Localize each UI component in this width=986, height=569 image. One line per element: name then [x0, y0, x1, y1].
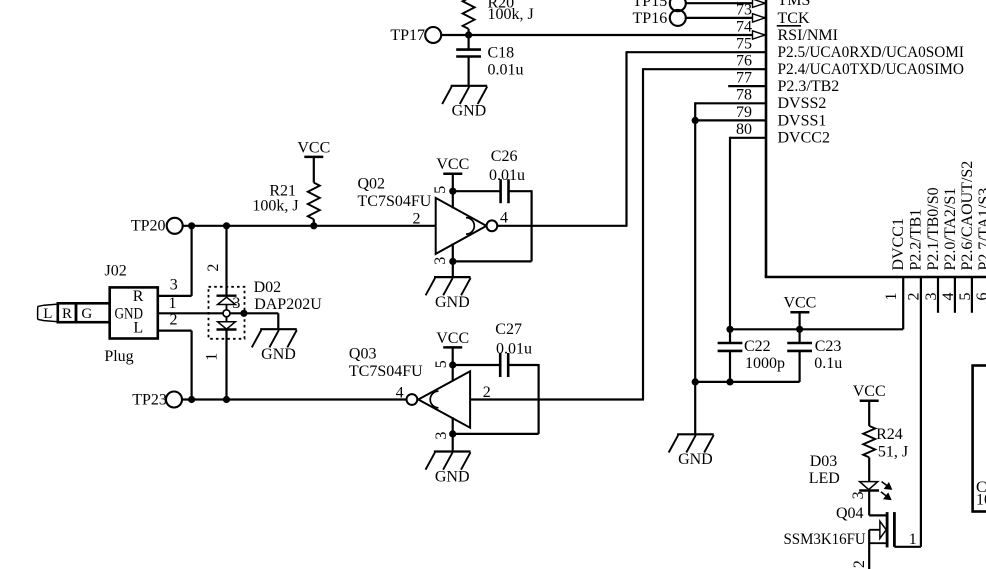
- wire pin TMS row from TP15: [686, 2, 766, 4]
- testpoint TP23: [132, 391, 182, 408]
- inverter Q02 triangle with arc: [436, 198, 487, 254]
- svg-text:3: 3: [850, 491, 867, 499]
- junction DVSS1/DVSS2 net: [692, 117, 699, 124]
- svg-text:VCC: VCC: [436, 330, 469, 347]
- capacitor C27 0.01u bypass loop: [453, 321, 539, 434]
- svg-text:0.01u: 0.01u: [489, 167, 525, 184]
- svg-text:C26: C26: [491, 148, 518, 165]
- svg-text:5: 5: [432, 186, 449, 194]
- svg-text:TCK: TCK: [778, 10, 810, 27]
- svg-text:P2.3/TB2: P2.3/TB2: [778, 78, 840, 95]
- junction TP20/J02 pin3: [188, 222, 195, 229]
- Q03 pin 5 VCC wire: [433, 347, 453, 381]
- svg-text:3: 3: [170, 277, 178, 294]
- svg-text:80: 80: [736, 121, 752, 138]
- junction TP23/J02 pin2: [188, 396, 195, 403]
- D03 pin 3 cathode wire to Q04 drain: [850, 491, 887, 516]
- D02 top diode (cathode bar up): [217, 296, 237, 310]
- svg-text:C22: C22: [744, 338, 771, 355]
- wire TP20 to Q02 input: [183, 225, 436, 227]
- connector box (clipped at right edge): [973, 366, 986, 512]
- D02 pin 2 wire (top) from TP20 net: [205, 226, 227, 296]
- ground bottom rail: [677, 433, 714, 435]
- J02 pin 2 (L) wire down to TP23 net: [158, 312, 192, 400]
- svg-text:79: 79: [736, 104, 752, 121]
- ground under C18: [451, 85, 488, 87]
- svg-text:P2.5/UCA0RXD/UCA0SOMI: P2.5/UCA0RXD/UCA0SOMI: [778, 44, 965, 61]
- transistor Q04 MOSFET symbol: [869, 512, 894, 547]
- wire VCC top rail from pin 1 DVCC1: [730, 277, 903, 329]
- svg-text:2: 2: [413, 211, 421, 228]
- svg-text:74: 74: [736, 18, 752, 35]
- svg-text:LED: LED: [809, 470, 840, 487]
- wire pin 76 to Q03 input (net TXD): [643, 68, 766, 399]
- svg-text:VCC: VCC: [436, 156, 469, 173]
- svg-text:75: 75: [736, 36, 752, 53]
- svg-text:GND: GND: [678, 451, 713, 468]
- wire pin 75 to Q02 output (net RXD): [627, 51, 767, 226]
- D02 labels: [254, 279, 323, 313]
- Q03 pin 3 GND wire: [433, 417, 453, 451]
- junction D02 pin3 to GND branch: [240, 310, 247, 317]
- svg-text:10: 10: [976, 492, 986, 509]
- wire Q03 input from P2.4 net: [470, 398, 644, 400]
- testpoint TP17: [390, 27, 441, 44]
- svg-text:P2.7/TA1/S3: P2.7/TA1/S3: [976, 188, 986, 271]
- capacitor C26 0.01u bypass loop: [453, 148, 532, 261]
- svg-text:2: 2: [205, 264, 222, 272]
- svg-text:L: L: [133, 320, 143, 337]
- pin 2 P2.2/TB1 wire to Q04 gate: [894, 277, 922, 547]
- svg-text:2: 2: [170, 312, 178, 329]
- svg-text:D03: D03: [810, 453, 838, 470]
- svg-text:100k, J: 100k, J: [252, 198, 298, 215]
- Q02 pin 5 VCC wire: [432, 174, 453, 209]
- svg-text:G: G: [81, 306, 92, 322]
- J02 pin 1 (GND) wire through D02 common node: [158, 295, 244, 313]
- svg-text:78: 78: [736, 87, 752, 104]
- testpoint TP16: [633, 10, 686, 27]
- pin 1 DVCC1 stub: [883, 293, 900, 301]
- inverter Q02 TC7S04FU designator: [358, 176, 432, 210]
- junction Q02 pin5 / C26: [449, 188, 456, 195]
- svg-text:DVSS1: DVSS1: [778, 112, 827, 129]
- pin label RSI/NMI with overline on RSI: [777, 26, 838, 44]
- junction TP23/D02 pin1: [223, 396, 230, 403]
- connector J02 Plug body: [110, 287, 158, 338]
- svg-text:VCC: VCC: [297, 139, 330, 156]
- svg-text:DAP202U: DAP202U: [254, 296, 322, 313]
- svg-text:GND: GND: [452, 103, 487, 120]
- inverter Q03 triangle with arc (points left): [418, 371, 470, 427]
- svg-text:1: 1: [203, 353, 220, 361]
- svg-text:P2.4/UCA0TXD/UCA0SIMO: P2.4/UCA0TXD/UCA0SIMO: [778, 61, 965, 78]
- svg-text:0.01u: 0.01u: [488, 61, 524, 78]
- testpoint TP15: [633, 0, 686, 11]
- pin 3 stub: [923, 277, 940, 313]
- svg-text:RSI/NMI: RSI/NMI: [778, 27, 838, 44]
- D02 pin 1 wire (bottom) to TP23 net: [203, 330, 226, 400]
- svg-text:P2.2/TB1: P2.2/TB1: [908, 209, 925, 271]
- junction rail / VCC / C23: [796, 326, 803, 333]
- capacitor C22 1000p: [718, 329, 785, 382]
- svg-text:C18: C18: [488, 45, 515, 62]
- svg-text:5: 5: [433, 360, 450, 368]
- resistor R20 100k (clipped at top): [463, 0, 534, 35]
- jack plug tip symbol with L R G sections: [38, 303, 110, 322]
- Q02 pin 3 GND wire: [432, 244, 453, 278]
- svg-text:D02: D02: [254, 279, 282, 296]
- inverter Q03 TC7S04FU designator: [349, 346, 423, 381]
- svg-text:C27: C27: [495, 321, 522, 338]
- pin input arrow TMS: [753, 0, 766, 7]
- svg-text:DVSS2: DVSS2: [778, 95, 827, 112]
- wire pin 78 DVSS2 to ground rail: [695, 102, 766, 434]
- svg-text:0.1u: 0.1u: [814, 355, 842, 372]
- svg-text:1000p: 1000p: [745, 355, 785, 372]
- svg-text:6: 6: [974, 293, 986, 301]
- junction TP20/R21: [310, 222, 317, 229]
- wire pin 80 DVCC2 to VCC rail: [730, 137, 766, 329]
- svg-text:DVCC2: DVCC2: [778, 130, 830, 147]
- J02 pin 3 (R) wire up to TP20 net: [158, 226, 192, 296]
- svg-text:Plug: Plug: [104, 348, 133, 365]
- svg-text:TMS: TMS: [778, 0, 811, 9]
- svg-text:P2.0/TA2/S1: P2.0/TA2/S1: [942, 188, 959, 271]
- svg-text:GND: GND: [261, 346, 296, 363]
- diode array D02 DAP202U dashed outline: [209, 287, 245, 339]
- svg-text:3: 3: [433, 432, 450, 440]
- wire Q02 output to P2.5 net: [497, 225, 627, 227]
- power VCC for R21: [304, 156, 323, 159]
- power VCC for R24: [860, 400, 879, 403]
- wire pin 77 stub (unconnected): [728, 85, 766, 87]
- LED D03 emission arrows: [881, 482, 892, 500]
- junction Q03 pin5 / C27: [449, 361, 456, 368]
- svg-text:SSM3K16FU: SSM3K16FU: [784, 531, 867, 548]
- svg-text:R: R: [133, 288, 144, 305]
- junction TP20/D02 pin2: [223, 222, 230, 229]
- svg-text:1: 1: [883, 293, 900, 301]
- capacitor C23 0.1u: [787, 329, 842, 382]
- svg-text:J02: J02: [104, 262, 126, 279]
- svg-text:1: 1: [909, 531, 917, 548]
- junction Q03 pin3 / C27: [449, 430, 456, 437]
- wire D02 pin3 to ground: [244, 313, 278, 329]
- IC U01 MCU block outline (left and bottom edges, clipped at top/right): [765, 0, 986, 277]
- svg-text:P2.6/CAOUT/S2: P2.6/CAOUT/S2: [959, 161, 976, 271]
- svg-text:Q04: Q04: [836, 505, 864, 522]
- svg-text:GND: GND: [435, 468, 470, 485]
- node R20/C18/TP17 junction: [465, 31, 472, 38]
- svg-text:100k, J: 100k, J: [488, 6, 534, 23]
- capacitor C18 0.01u: [456, 35, 523, 86]
- junction ground rail / DVSS branch: [692, 378, 699, 385]
- ground at D02: [260, 328, 297, 330]
- svg-text:TP16: TP16: [633, 10, 668, 27]
- power VCC on rail: [790, 311, 809, 314]
- pin input arrow TCK: [753, 14, 766, 22]
- Q02 output bubble: [487, 220, 498, 231]
- svg-text:VCC: VCC: [853, 383, 886, 400]
- junction Q02 pin3 / C26: [449, 258, 456, 265]
- svg-text:TP17: TP17: [390, 27, 425, 44]
- wire VCC to rail: [798, 312, 800, 329]
- svg-text:77: 77: [736, 70, 752, 87]
- svg-text:4: 4: [500, 210, 508, 227]
- ground under Q03: [434, 450, 471, 452]
- svg-text:TC7S04FU: TC7S04FU: [358, 193, 432, 210]
- svg-text:73: 73: [736, 1, 752, 18]
- wire bottom ground rail: [695, 381, 799, 383]
- testpoint TP20: [131, 218, 183, 235]
- svg-text:1: 1: [169, 295, 177, 312]
- svg-text:2: 2: [851, 560, 868, 568]
- resistor R21 100k pull-up: [252, 157, 319, 226]
- junction rail / DVCC2 branch / C22: [726, 326, 733, 333]
- svg-text:Q03: Q03: [349, 346, 377, 363]
- svg-text:R: R: [62, 306, 72, 322]
- svg-text:DVCC1: DVCC1: [890, 218, 907, 270]
- D02 common node circle pin 3: [223, 295, 240, 317]
- svg-text:3: 3: [232, 295, 240, 312]
- wire pin 79 DVSS1: [695, 119, 766, 121]
- svg-text:TC7S04FU: TC7S04FU: [349, 363, 423, 380]
- svg-text:C23: C23: [815, 338, 842, 355]
- svg-text:51, J: 51, J: [878, 443, 908, 460]
- LED D03 labels: [809, 453, 840, 487]
- svg-text:0.01u: 0.01u: [496, 340, 532, 357]
- svg-text:3: 3: [432, 257, 449, 265]
- wire pin 74 RSI/NMI row from TP17: [441, 34, 766, 36]
- junction ground rail / C22: [726, 378, 733, 385]
- pin 5 stub: [957, 277, 974, 313]
- svg-text:P2.1/TB0/S0: P2.1/TB0/S0: [925, 187, 942, 270]
- svg-text:TP15: TP15: [633, 0, 668, 10]
- LED D03 symbol: [859, 482, 879, 491]
- pin 4 stub: [940, 277, 957, 313]
- svg-text:TP23: TP23: [132, 391, 167, 408]
- Q03 output bubble: [407, 394, 418, 405]
- pin input arrow RSI/NMI: [753, 31, 766, 39]
- svg-text:GND: GND: [435, 294, 470, 311]
- pin 6 stub: [974, 277, 986, 313]
- power VCC for Q03: [443, 346, 462, 349]
- wire pin 73 TCK row from TP16: [686, 17, 766, 19]
- ground under Q02: [434, 276, 471, 278]
- svg-text:TP20: TP20: [131, 218, 166, 235]
- svg-text:Q02: Q02: [358, 176, 386, 193]
- power VCC for Q02: [443, 173, 462, 176]
- svg-text:76: 76: [736, 53, 752, 70]
- svg-text:VCC: VCC: [783, 295, 816, 312]
- D02 bottom diode (anode bar down): [217, 317, 237, 330]
- svg-text:L: L: [43, 306, 52, 322]
- svg-text:R24: R24: [876, 426, 903, 443]
- resistor R24 51 ohm: [863, 401, 908, 482]
- Q04 source pin 2 wire (clipped bottom): [851, 530, 869, 569]
- wire TP23 net to Q03 output: [182, 398, 406, 400]
